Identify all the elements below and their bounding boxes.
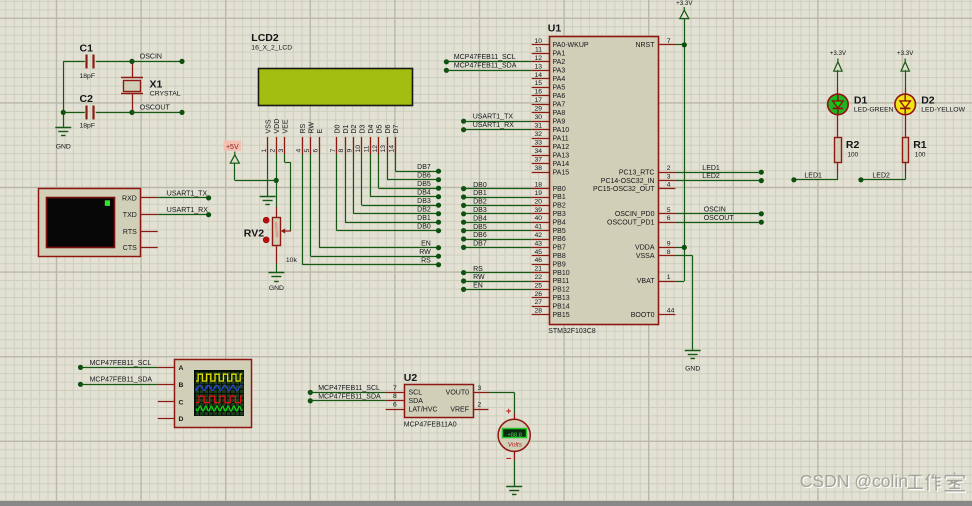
svg-text:+88.8: +88.8 [507,433,522,439]
svg-text:USART1_TX: USART1_TX [167,190,208,197]
wire net MCP47FEB11_SDA to scope B [78,382,158,387]
svg-text:7: 7 [330,149,337,153]
wire net USART1_RX at terminal [158,212,211,217]
svg-text:DB4: DB4 [473,215,487,222]
wire VSSA to GND [675,256,692,351]
svg-text:OSCIN: OSCIN [704,206,726,213]
svg-text:14: 14 [389,145,396,153]
svg-text:9: 9 [347,149,354,153]
svg-text:1: 1 [667,274,671,281]
wire +3.3V to D1 anode [837,70,839,94]
pin stub U1 PB1 (pin 19) [532,197,549,199]
svg-text:VBAT: VBAT [637,278,655,285]
svg-text:PB4: PB4 [553,219,566,226]
wire U2 VOUT0 to voltmeter [489,392,515,419]
pin stub U1 PA10 (pin 31) [532,129,549,131]
wire LCD net DB3 [362,154,442,208]
wire net RW to U1 PB11 [461,278,532,283]
svg-text:2: 2 [667,165,671,172]
pin stub terminal RXD [141,197,158,199]
wire +3.3V rail down to VDDA/VBAT [675,19,684,282]
wire LCD net DB2 [353,154,441,216]
pin stub U1 PA0-WKUP (pin 10) [532,44,549,46]
pin stub U1 PB12 (pin 25) [532,289,549,291]
pin stub U1 BOOT0 (pin 44) [658,314,675,316]
svg-text:STM32F103C8: STM32F103C8 [548,328,596,335]
svg-text:+3.3V: +3.3V [830,50,847,57]
svg-text:41: 41 [534,224,542,231]
svg-text:4: 4 [667,182,671,189]
svg-text:U2: U2 [404,372,418,384]
pin stub LCD pin 7 (D0) [336,137,338,154]
wire net DB6 to U1 PB6 [461,236,532,241]
wire LCD net RW [311,154,442,259]
pin stub U1 PA5 (pin 15) [532,87,549,89]
svg-text:EN: EN [473,283,483,290]
svg-text:DB1: DB1 [473,190,487,197]
pin stub U1 PB13 (pin 26) [532,297,549,299]
svg-text:10: 10 [534,38,542,45]
wire +3.3V to D2 anode [905,70,907,94]
svg-text:33: 33 [534,140,542,147]
pin stub LCD pin 11 (D4) [370,137,372,154]
wire LCD net DB6 [387,154,441,182]
svg-text:A: A [179,365,184,372]
pin stub LCD pin 4 (RS) [302,137,304,154]
wire LCD net DB4 [370,154,441,199]
svg-text:OSCIN_PD0: OSCIN_PD0 [615,211,655,218]
svg-text:PB12: PB12 [553,287,570,294]
LED D1 [828,94,849,115]
pin stub U1 VDDA (pin 9) [658,247,675,249]
svg-text:13: 13 [534,63,542,70]
svg-text:USART1_RX: USART1_RX [167,207,208,214]
svg-text:VSS: VSS [265,119,272,133]
wire net DB7 to U1 PB7 [461,245,532,250]
svg-text:30: 30 [534,114,542,121]
svg-text:12: 12 [534,55,542,62]
wire net MCP47FEB11_SCL to U2 SCL [308,390,386,395]
svg-text:5: 5 [304,149,311,153]
pin stub terminal RTS [141,231,158,233]
svg-text:PC15-OSC32_OUT: PC15-OSC32_OUT [593,186,655,193]
svg-text:PB6: PB6 [553,236,566,243]
pin stub oscilloscope C [158,401,175,403]
svg-text:D3: D3 [360,124,367,133]
svg-text:40: 40 [534,215,542,222]
svg-text:3: 3 [478,385,482,392]
wire D1 cathode to R2 [837,115,839,137]
pin stub U1 PA11 (pin 32) [532,138,549,140]
svg-text:22: 22 [534,274,542,281]
svg-text:6: 6 [393,402,397,409]
svg-text:D2: D2 [351,124,358,133]
svg-text:PA1: PA1 [553,51,566,58]
wire net LED2 from U1 PC14 [675,178,764,183]
svg-text:13: 13 [380,145,387,153]
pin stub LCD pin 14 (D7) [395,137,397,154]
pin stub U2 LAT/HVC (pin 6) [386,409,404,411]
svg-text:16_X_2_LCD: 16_X_2_LCD [251,44,292,51]
svg-text:CRYSTAL: CRYSTAL [150,91,181,98]
pin stub U2 VREF (pin 2) [473,409,489,411]
wire net MCP47FEB11_SCL to scope A [78,365,158,370]
svg-text:LED-YELLOW: LED-YELLOW [921,107,965,114]
svg-text:−: − [506,454,512,465]
virtual terminal instrument body [39,189,141,257]
svg-text:C1: C1 [80,43,94,55]
svg-text:PA8: PA8 [553,110,566,117]
svg-text:12: 12 [372,145,379,153]
pin stub U1 PB0 (pin 18) [532,188,549,190]
pin stub U1 PC13_RTC (pin 2) [658,172,675,174]
svg-text:DB5: DB5 [473,224,487,231]
LED D2 [895,94,916,115]
svg-text:3: 3 [278,149,285,153]
node junction VDDA [682,245,687,250]
pin stub U1 PA12 (pin 33) [532,146,549,148]
pin stub U1 VBAT (pin 1) [658,281,675,283]
svg-text:DB3: DB3 [417,198,431,205]
svg-text:OSCOUT: OSCOUT [140,105,171,112]
svg-text:37: 37 [534,157,542,164]
svg-text:PB5: PB5 [553,228,566,235]
pin stub LCD pin 5 (RW) [310,137,312,154]
svg-text:DB2: DB2 [417,207,431,214]
svg-text:X1: X1 [150,79,163,91]
svg-text:RW: RW [309,122,316,134]
svg-text:SDA: SDA [409,398,424,405]
wire LCD VEE to RV2 wiper [285,154,291,231]
svg-text:RW: RW [473,274,485,281]
svg-text:26: 26 [534,291,542,298]
svg-text:2: 2 [269,149,276,153]
svg-text:MCP47FEB11_SDA: MCP47FEB11_SDA [454,63,517,70]
svg-text:14: 14 [534,72,542,79]
svg-text:PA9: PA9 [553,118,566,125]
pin stub LCD pin 3 (VEE) [284,137,286,154]
oscilloscope instrument body [175,360,252,428]
wire net USART1_TX at terminal [158,195,211,200]
svg-text:DB7: DB7 [417,164,431,171]
svg-text:2: 2 [478,402,482,409]
svg-text:CTS: CTS [123,245,137,252]
svg-text:B: B [179,382,184,389]
svg-text:VDD: VDD [274,119,281,134]
pin stub U2 SCL (pin 7) [386,392,404,394]
svg-text:USART1_TX: USART1_TX [473,114,514,121]
svg-text:PA5: PA5 [553,85,566,92]
svg-text:DB5: DB5 [417,181,431,188]
svg-text:R1: R1 [913,139,927,151]
capacitor C1 [63,55,132,69]
wire net DB5 to U1 PB5 [461,228,532,233]
pin stub oscilloscope D [158,418,175,420]
wire net LED1 from U1 PC13 [675,170,764,175]
wire R2 bottom to net LED1 [791,163,838,183]
wire net DB0 to U1 PB0 [461,186,532,191]
svg-text:PA12: PA12 [553,144,570,151]
svg-text:RV2: RV2 [244,228,264,240]
wire RV2 bottom to GND [276,246,278,273]
pin stub U1 PB3 (pin 39) [532,213,549,215]
svg-text:PB13: PB13 [553,295,570,302]
svg-text:RS: RS [300,123,307,133]
wire voltmeter minus to GND [514,451,516,486]
svg-text:LAT/HVC: LAT/HVC [409,406,438,413]
svg-text:27: 27 [534,299,542,306]
svg-text:PA4: PA4 [553,76,566,83]
svg-text:LED2: LED2 [872,172,890,179]
pin stub U1 PB6 (pin 42) [532,239,549,241]
svg-text:RS: RS [421,258,431,265]
svg-text:PB3: PB3 [553,211,566,218]
svg-text:EN: EN [421,241,431,248]
svg-text:DB2: DB2 [473,199,487,206]
DAC U2 body [405,385,474,418]
svg-text:DB6: DB6 [417,173,431,180]
svg-text:GND: GND [269,285,284,292]
svg-text:RW: RW [419,249,431,256]
wire net DB4 to U1 PB4 [461,220,532,225]
svg-text:PA14: PA14 [553,161,570,168]
pin stub U1 PA9 (pin 30) [532,121,549,123]
svg-text:46: 46 [534,257,542,264]
svg-text:39: 39 [534,207,542,214]
svg-text:4: 4 [295,149,302,153]
svg-text:38: 38 [534,165,542,172]
svg-text:10: 10 [355,145,362,153]
svg-text:VDDA: VDDA [635,245,655,252]
svg-text:29: 29 [534,106,542,113]
pin stub LCD pin 10 (D3) [361,137,363,154]
svg-text:D6: D6 [385,124,392,133]
svg-text:U1: U1 [548,23,562,35]
svg-text:D0: D0 [334,124,341,133]
node junction C2/GND rail [61,110,66,115]
pin stub U1 OSCOUT_PD1 (pin 6) [658,222,675,224]
pin stub U1 OSCIN_PD0 (pin 5) [658,213,675,215]
pin stub U2 VOUT0 (pin 3) [473,392,489,394]
pin stub U1 PB7 (pin 43) [532,247,549,249]
svg-text:+3.3V: +3.3V [676,0,693,7]
svg-text:LED1: LED1 [804,172,822,179]
svg-text:RXD: RXD [122,195,137,202]
svg-text:42: 42 [534,232,542,239]
svg-text:6: 6 [312,149,319,153]
svg-text:11: 11 [363,145,370,152]
svg-text:LED2: LED2 [702,173,720,180]
pin stub U1 PB14 (pin 27) [532,306,549,308]
svg-text:PB2: PB2 [553,203,566,210]
svg-text:VSSA: VSSA [636,253,655,260]
svg-text:OSCOUT_PD1: OSCOUT_PD1 [607,219,655,226]
svg-text:21: 21 [534,266,542,273]
node junction OSCOUT at crystal [129,110,134,115]
resistor R1 [903,138,909,163]
pin stub oscilloscope A [158,367,175,369]
pin stub U1 PA7 (pin 17) [532,104,549,106]
svg-text:8: 8 [338,149,345,153]
svg-text:3: 3 [667,174,671,181]
wire net EN to U1 PB12 [461,287,532,292]
crystal X1 [121,61,143,112]
watermark CSDN @colin studio [800,471,966,492]
svg-text:PB7: PB7 [553,245,566,252]
svg-text:USART1_RX: USART1_RX [473,122,514,129]
wire LCD net EN [319,154,441,250]
svg-text:100: 100 [848,152,859,159]
svg-text:5: 5 [667,207,671,214]
svg-text:7: 7 [667,38,671,45]
pin stub U1 PA2 (pin 12) [532,61,549,63]
svg-text:SCL: SCL [409,390,423,397]
pin stub LCD pin 8 (D1) [345,137,347,154]
svg-text:MCP47FEB11_SDA: MCP47FEB11_SDA [318,393,381,400]
svg-text:VOUT0: VOUT0 [446,390,469,397]
pin stub LCD pin 6 (E) [319,137,321,154]
wire net OSCOUT [132,110,185,115]
svg-text:10k: 10k [286,257,298,264]
power terminal +3.3V (D2 branch) [897,50,914,71]
svg-text:TXD: TXD [123,212,137,219]
pin stub U1 VSSA (pin 8) [658,255,675,257]
svg-text:PB9: PB9 [553,261,566,268]
svg-text:OSCIN: OSCIN [140,54,162,61]
wire net MCP47FEB11_SDA to U1 PA3 [444,68,532,73]
pin stub U1 PB15 (pin 28) [532,314,549,316]
svg-text:100: 100 [915,152,926,159]
wire net OSCIN [132,59,185,64]
wire +5V to VDD junction [235,163,277,180]
svg-text:PA7: PA7 [553,101,566,108]
svg-text:E: E [317,129,324,134]
svg-text:D5: D5 [376,124,383,133]
svg-text:MCP47FEB11_SCL: MCP47FEB11_SCL [90,360,152,367]
svg-text:1: 1 [261,149,268,153]
pin stub U1 PB5 (pin 41) [532,230,549,232]
wire net MCP47FEB11_SDA to U2 SDA [308,398,386,403]
svg-text:17: 17 [534,97,542,104]
svg-text:D2: D2 [921,94,935,106]
pin stub U1 PC14-OSC32_IN (pin 3) [658,180,675,182]
node junction +5V VDD [274,178,279,183]
wire GND rail left vertical [63,61,65,127]
svg-text:PB0: PB0 [553,186,566,193]
svg-text:28: 28 [534,308,542,315]
wire D2 cathode to R1 [905,115,907,137]
svg-text:MCP47FEB11_SCL: MCP47FEB11_SCL [318,385,380,392]
svg-text:OSCOUT: OSCOUT [704,215,735,222]
svg-text:18: 18 [534,182,542,189]
svg-text:32: 32 [534,131,542,138]
svg-text:DB3: DB3 [473,207,487,214]
svg-text:PC14-OSC32_IN: PC14-OSC32_IN [601,178,655,185]
svg-text:NRST: NRST [635,42,655,49]
oscilloscope screen with waveforms [195,371,244,416]
svg-text:LED1: LED1 [702,165,720,172]
wire LCD VSS to ground [267,154,269,196]
svg-text:31: 31 [534,123,542,130]
wire net USART1_TX to U1 PA9 [461,119,532,124]
svg-text:MCP47FEB11_SCL: MCP47FEB11_SCL [454,54,516,61]
svg-text:PA15: PA15 [553,169,570,176]
pin stub LCD pin 13 (D6) [387,137,389,154]
wire LCD net DB5 [379,154,442,191]
svg-text:LCD2: LCD2 [251,32,279,44]
svg-text:LED-GREEN: LED-GREEN [854,107,894,114]
pin stub terminal CTS [141,247,158,249]
capacitor C2 [63,106,132,120]
svg-text:18pF: 18pF [80,73,96,80]
svg-text:C: C [179,399,184,406]
svg-text:GND: GND [56,144,71,151]
svg-text:PA0-WKUP: PA0-WKUP [553,42,589,49]
svg-text:+5V: +5V [226,144,239,151]
svg-text:+: + [506,406,512,417]
svg-text:7: 7 [393,385,397,392]
svg-text:D1: D1 [854,94,868,106]
voltmeter instrument [498,419,530,451]
ground symbol under LCD VSS [260,197,276,205]
svg-text:8: 8 [667,249,671,256]
pin stub U1 PA13 (pin 34) [532,155,549,157]
svg-text:PB15: PB15 [553,312,570,319]
svg-text:19: 19 [534,190,542,197]
svg-text:PA10: PA10 [553,127,570,134]
power terminal +3.3V (main rail) [676,0,693,19]
svg-text:D7: D7 [393,124,400,133]
svg-text:BOOT0: BOOT0 [631,312,655,319]
wire LCD net DB0 [337,154,442,233]
pin stub LCD pin 12 (D5) [378,137,380,154]
node junction NRST +3.3V [682,42,687,47]
svg-text:CSDN @colin: CSDN @colin [800,471,908,491]
svg-text:11: 11 [535,46,542,53]
svg-text:DB1: DB1 [417,215,431,222]
svg-text:PA11: PA11 [553,135,569,142]
svg-text:34: 34 [534,148,542,155]
svg-text:Volts: Volts [508,441,523,448]
resistor R2 [835,138,842,163]
pin stub U1 PB4 (pin 40) [532,222,549,224]
pin stub LCD pin 2 (VDD) [276,137,278,154]
potentiometer RV2 [263,217,291,245]
svg-text:DB0: DB0 [417,224,431,231]
svg-text:MCP47FEB11_SDA: MCP47FEB11_SDA [90,377,153,384]
pin stub U1 PA3 (pin 13) [532,70,549,72]
svg-text:8: 8 [393,393,397,400]
wire LCD net DB7 [395,154,441,174]
pin stub U1 NRST (pin 7) [658,44,675,46]
power terminal +5V [224,141,241,164]
svg-text:16: 16 [534,89,542,96]
svg-text:D: D [179,416,184,423]
svg-text:C2: C2 [80,93,94,105]
pin stub U1 PA8 (pin 29) [532,112,549,114]
svg-text:44: 44 [667,308,675,315]
wire net DB2 to U1 PB2 [461,203,532,208]
svg-text:PA6: PA6 [553,93,566,100]
LCD2 display body [259,69,413,106]
svg-text:45: 45 [534,249,542,256]
pin stub U1 PB2 (pin 20) [532,205,549,207]
wire net DB3 to U1 PB3 [461,211,532,216]
wire LCD net RS [302,154,441,267]
wire net OSCOUT from U1 PD1 [675,220,764,225]
svg-text:D4: D4 [368,124,375,133]
ground symbol GND under RV2 [268,273,284,293]
